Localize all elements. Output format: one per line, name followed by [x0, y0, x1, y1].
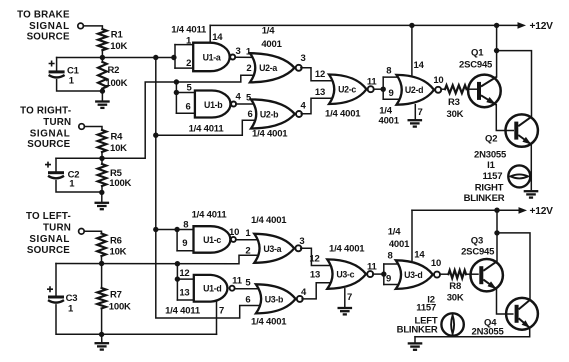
svg-text:RIGHT: RIGHT: [475, 182, 504, 193]
svg-text:2SC945: 2SC945: [459, 60, 493, 71]
svg-text:1/4 4001: 1/4 4001: [251, 215, 287, 226]
svg-text:5: 5: [246, 93, 252, 104]
svg-text:30K: 30K: [447, 109, 464, 120]
transistor Q4 2N3055: [506, 298, 538, 330]
capacitor C3 plus sign: [47, 286, 53, 292]
svg-text:1/4 4001: 1/4 4001: [252, 129, 288, 140]
resistor R8: [448, 270, 466, 278]
svg-text:I1: I1: [487, 160, 495, 171]
terminal brake input: [78, 23, 84, 29]
lamp I1 1157 right blinker: [508, 165, 530, 187]
resistor R3: [445, 85, 467, 93]
svg-text:2N3055: 2N3055: [472, 327, 505, 338]
svg-text:U3-d: U3-d: [404, 270, 422, 280]
wire U2-c out: [374, 88, 383, 90]
svg-text:U1-b: U1-b: [204, 100, 223, 110]
svg-text:SIGNAL: SIGNAL: [30, 129, 71, 140]
wire U3-a out to U3-c pin12: [301, 248, 333, 265]
nor U3-c: [327, 259, 366, 288]
nand U1-a: [193, 43, 229, 71]
svg-text:SIGNAL: SIGNAL: [29, 234, 70, 245]
svg-text:13: 13: [310, 269, 320, 280]
ground below R5: [95, 202, 110, 204]
svg-text:U3-b: U3-b: [265, 294, 284, 304]
svg-text:1/4 4001: 1/4 4001: [329, 244, 365, 255]
svg-text:3: 3: [300, 53, 305, 64]
svg-text:7: 7: [347, 292, 352, 303]
wire U2-d pin8: [383, 76, 401, 78]
svg-text:9: 9: [386, 274, 391, 285]
nand U1-c: [194, 226, 231, 253]
resistor R1: [98, 29, 107, 50]
wire U1-c out to U3-a pin1: [236, 239, 260, 241]
wire U3-b out to U3-c pin13: [302, 283, 332, 299]
nor U2-a: [250, 53, 295, 82]
svg-text:R3: R3: [448, 97, 460, 108]
wire brake tap to U2-b pin6: [156, 120, 257, 135]
svg-text:100K: 100K: [109, 178, 131, 189]
terminal right-turn input: [79, 124, 85, 130]
svg-text:11: 11: [232, 276, 243, 287]
svg-text:10: 10: [431, 258, 441, 269]
svg-text:6: 6: [247, 109, 252, 120]
svg-text:6: 6: [245, 295, 250, 306]
svg-text:6: 6: [185, 102, 190, 113]
svg-text:3: 3: [235, 46, 240, 57]
terminal left-turn input: [79, 229, 85, 235]
nand U1-d: [194, 275, 228, 302]
svg-text:13: 13: [315, 87, 325, 98]
capacitor C1: [49, 70, 65, 73]
svg-text:SOURCE: SOURCE: [27, 245, 70, 256]
wire R6 to node: [101, 256, 103, 264]
wire U3-d out to R8: [440, 273, 449, 275]
wire node to C3: [55, 264, 57, 296]
wire +12V bottom rail: [412, 209, 520, 211]
svg-text:1/4 4011: 1/4 4011: [171, 24, 207, 35]
node U1-a input tie: [171, 55, 176, 60]
capacitor C3: [48, 296, 64, 299]
wire terminal to R6: [84, 231, 101, 233]
node U1-d pin12 tie: [175, 276, 180, 281]
nor U2-d: [397, 75, 435, 105]
node brake tap U1-c: [153, 227, 158, 232]
node R6-R7 junction: [99, 261, 104, 266]
wire U3-c out: [373, 273, 384, 275]
svg-text:U2-a: U2-a: [259, 63, 277, 73]
svg-text:30K: 30K: [447, 293, 464, 304]
nor U3-d: [396, 260, 433, 289]
svg-text:8: 8: [183, 219, 188, 230]
wire Q3 collector to rail: [496, 210, 498, 261]
wire U1-d pin12: [177, 278, 193, 280]
wire U1-b input tie: [175, 82, 177, 113]
svg-text:1/4 4011: 1/4 4011: [165, 306, 201, 317]
wire U2-d input tie: [382, 77, 384, 99]
svg-text:14: 14: [414, 250, 425, 261]
wire U2-d pin14: [411, 25, 413, 75]
svg-text:10K: 10K: [110, 247, 127, 258]
node brake tap U2-b: [153, 133, 158, 138]
wire U1-a pin2: [175, 67, 193, 69]
wire to ground: [101, 91, 103, 101]
wire U2-d pin9: [383, 98, 401, 100]
svg-text:R1: R1: [111, 30, 124, 41]
wire node to C1: [56, 58, 58, 71]
svg-text:SOURCE: SOURCE: [27, 32, 70, 43]
svg-text:10K: 10K: [110, 41, 127, 52]
ground below R2: [95, 100, 110, 102]
svg-text:U1-a: U1-a: [203, 53, 221, 63]
svg-text:10K: 10K: [110, 143, 127, 154]
svg-text:U1-d: U1-d: [203, 284, 221, 294]
svg-text:SIGNAL: SIGNAL: [29, 21, 70, 32]
svg-text:11: 11: [367, 77, 378, 88]
wire U2-b out to U2-c pin13: [301, 98, 334, 114]
wire brake node bus: [57, 57, 175, 59]
wire U3-c pin7: [344, 289, 346, 307]
svg-text:14: 14: [212, 32, 223, 43]
node U1-b pin5 tie: [174, 90, 179, 95]
svg-text:C3: C3: [66, 293, 78, 304]
svg-text:9: 9: [388, 88, 393, 99]
wire U1-a pin1: [175, 44, 193, 46]
svg-text:1157: 1157: [482, 171, 502, 182]
wire rail to U3-d pin14: [411, 210, 413, 260]
svg-text:2: 2: [245, 246, 250, 257]
wire U2-d out to R3: [441, 88, 445, 90]
svg-text:R8: R8: [449, 281, 461, 292]
transistor Q3 2SC945: [471, 259, 503, 291]
svg-text:7: 7: [418, 107, 423, 118]
node Q3 collector branch: [494, 230, 499, 235]
wire branch to Q2 collector: [497, 51, 532, 117]
svg-text:2N3055: 2N3055: [474, 150, 507, 161]
wire Q1 emitter to Q2 base: [496, 105, 513, 131]
svg-text:TO LEFT-: TO LEFT-: [26, 211, 71, 222]
node rail U2-d pin14: [409, 23, 414, 28]
svg-text:1/4 4001: 1/4 4001: [325, 109, 361, 120]
svg-text:SOURCE: SOURCE: [27, 139, 70, 150]
svg-text:BLINKER: BLINKER: [464, 193, 505, 204]
svg-text:U2-d: U2-d: [405, 85, 423, 95]
svg-text:100K: 100K: [105, 78, 127, 89]
svg-text:R2: R2: [108, 65, 120, 76]
arrow +12V bottom: [519, 207, 528, 214]
svg-text:4001: 4001: [389, 239, 410, 250]
wire U1-a pin14: [209, 25, 211, 42]
node rail Q3 branch: [494, 208, 499, 213]
svg-text:+12V: +12V: [530, 21, 554, 32]
ground below U3-c: [338, 307, 353, 309]
wire right-turn bus: [56, 75, 256, 158]
svg-text:2SC945: 2SC945: [461, 247, 495, 258]
resistor R5: [101, 158, 103, 164]
svg-text:1/4: 1/4: [262, 26, 276, 37]
wire U1-a out to U2-a pin1: [235, 56, 255, 58]
svg-text:U1-c: U1-c: [203, 235, 221, 245]
wire R3 to Q1 base: [467, 88, 478, 90]
svg-text:4001: 4001: [261, 39, 282, 50]
wire U1-c pin8: [156, 229, 194, 231]
wire Q4 emitter down: [415, 328, 530, 337]
wire U2-a out to U2-c pin12: [301, 68, 334, 81]
ground below R7: [95, 342, 110, 344]
svg-text:U2-c: U2-c: [338, 85, 356, 95]
svg-text:Q1: Q1: [471, 47, 484, 58]
svg-text:11: 11: [367, 262, 378, 273]
wire Q1 collector to rail: [496, 25, 498, 77]
node R1-R2 junction: [100, 55, 105, 60]
wire U3-d pin9: [384, 284, 401, 286]
svg-text:100K: 100K: [109, 302, 131, 313]
wire C1 to bottom rail: [57, 80, 103, 91]
wire C3 to bottom ground rail: [56, 305, 217, 334]
svg-text:8: 8: [387, 251, 392, 262]
wire U3-d pin8: [384, 263, 401, 265]
svg-text:10: 10: [433, 75, 443, 86]
wire U2-d pin7: [414, 105, 416, 120]
wire U1-b out to U2-b pin5: [236, 103, 257, 105]
nor U2-b: [251, 99, 295, 128]
svg-text:BLINKER: BLINKER: [397, 325, 438, 336]
node rail Q1 branch: [494, 23, 499, 28]
nand U1-b: [195, 91, 231, 118]
resistor R2: [101, 58, 103, 63]
svg-text:12: 12: [309, 254, 319, 265]
node R5 bottom junction: [99, 190, 104, 195]
wire U1-d pin7: [216, 302, 218, 335]
nor U2-c: [329, 75, 367, 105]
wire R8 to Q3 base: [466, 273, 478, 275]
wire terminal to R4: [84, 127, 102, 131]
svg-text:2: 2: [186, 58, 191, 69]
resistor R7: [101, 264, 103, 289]
lamp I2 1157 left blinker: [441, 313, 463, 335]
node Q1 collector branch: [494, 48, 499, 53]
node U1-c input tie: [174, 227, 179, 232]
wire Q3 emitter to Q4 base: [497, 289, 513, 314]
wire I2 ground stem: [414, 337, 416, 343]
wire U1-c pin9: [177, 250, 193, 252]
node U3-d input tie: [381, 271, 386, 276]
node R7 bottom junction: [99, 332, 104, 337]
node R4-R5 junction: [99, 156, 104, 161]
nor U3-b: [256, 284, 296, 313]
wire U1-d pin13: [177, 299, 193, 301]
node brake bus tap 1: [153, 55, 158, 60]
svg-text:13: 13: [179, 288, 189, 299]
ground below I2: [408, 342, 423, 344]
svg-text:U3-c: U3-c: [336, 270, 354, 280]
transistor Q1 2SC945: [468, 75, 501, 108]
wire U3-d input tie: [383, 264, 385, 285]
capacitor C1 plus sign: [49, 61, 55, 67]
svg-text:12: 12: [179, 268, 189, 279]
wire C2 to bottom rail: [56, 181, 102, 192]
wire node to C2: [55, 158, 57, 171]
svg-text:1/4 4001: 1/4 4001: [251, 317, 287, 328]
svg-text:4001: 4001: [379, 116, 400, 127]
svg-text:R6: R6: [110, 236, 122, 247]
resistor R6: [97, 234, 106, 257]
wire U1-b pin5: [176, 92, 195, 94]
svg-text:1/4 4011: 1/4 4011: [192, 210, 228, 221]
svg-text:7: 7: [219, 306, 224, 317]
svg-text:R4: R4: [111, 132, 124, 143]
ground below U2-d: [408, 119, 423, 121]
svg-text:8: 8: [386, 66, 391, 77]
svg-text:U3-a: U3-a: [263, 244, 281, 254]
svg-text:3: 3: [299, 236, 304, 247]
wire U1-a input tie: [174, 45, 176, 69]
wire terminal to R1: [83, 26, 102, 29]
wire R1 to node: [101, 50, 103, 57]
wire U1-d input tie: [176, 264, 178, 300]
node U2-d input tie: [381, 87, 386, 92]
svg-text:TURN: TURN: [43, 117, 71, 128]
svg-text:10: 10: [229, 227, 239, 238]
svg-text:Q2: Q2: [485, 134, 497, 145]
node right-turn tap U1-b: [174, 79, 179, 84]
svg-text:12: 12: [315, 69, 325, 80]
wire left-turn bus: [56, 255, 259, 264]
wire U1-d out to U3-b pin5: [236, 288, 262, 290]
arrow +12V top: [518, 22, 527, 29]
resistor R4: [98, 130, 107, 152]
wire brake vertical bus: [156, 58, 261, 319]
wire U1-c input tie: [176, 230, 178, 251]
svg-text:1/4: 1/4: [388, 227, 402, 238]
capacitor C2: [48, 171, 64, 174]
svg-text:TO BRAKE: TO BRAKE: [17, 9, 70, 20]
svg-text:U2-b: U2-b: [260, 109, 279, 119]
wire to ground: [101, 334, 103, 342]
svg-text:14: 14: [414, 60, 425, 71]
ground below lamp I1: [524, 190, 539, 192]
svg-text:2: 2: [246, 63, 251, 74]
nor U3-a: [254, 234, 294, 263]
node R2 bottom junction: [100, 88, 105, 93]
svg-text:1157: 1157: [416, 302, 436, 313]
wire +12V top rail: [210, 24, 518, 26]
wire Q2 emitter down: [530, 145, 532, 190]
wire branch to Q4 collector: [497, 233, 530, 300]
svg-text:9: 9: [182, 238, 187, 249]
wire U1-b pin6: [176, 112, 195, 114]
node left-turn tap U1-d: [175, 261, 180, 266]
svg-text:1/4 4011: 1/4 4011: [189, 124, 225, 135]
transistor Q2 2N3055: [506, 114, 538, 146]
capacitor C2 plus sign: [45, 162, 51, 168]
wire R4 to node: [101, 152, 103, 158]
svg-text:TO RIGHT-: TO RIGHT-: [20, 105, 71, 116]
svg-text:+12V: +12V: [530, 206, 554, 217]
svg-text:TURN: TURN: [43, 223, 71, 234]
svg-text:R7: R7: [110, 290, 122, 301]
wire to ground: [101, 192, 103, 202]
svg-text:Q3: Q3: [471, 236, 483, 247]
